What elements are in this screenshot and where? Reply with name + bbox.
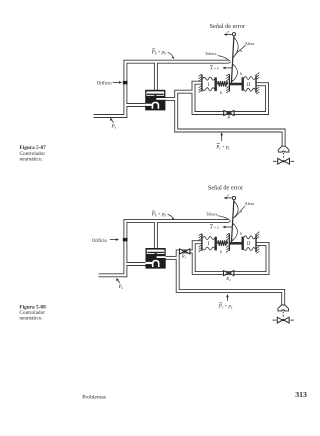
svg-text:Ps: Ps [118, 285, 124, 290]
svg-text:R1: R1 [181, 253, 187, 259]
svg-text:Señal de error: Señal de error [208, 185, 244, 192]
svg-text:X + x: X + x [209, 65, 219, 70]
svg-text:neumático.: neumático. [19, 316, 42, 322]
svg-text:Tobera: Tobera [205, 51, 217, 56]
svg-text:e: e [227, 193, 229, 198]
svg-text:e: e [227, 29, 229, 34]
svg-text:Tobera: Tobera [206, 212, 218, 217]
svg-text:Pb + pb: Pb + pb [151, 213, 166, 218]
svg-text:Orificio: Orificio [92, 239, 107, 244]
svg-text:Problemas: Problemas [82, 395, 106, 401]
svg-text:R: R [226, 115, 230, 120]
svg-text:Orificio: Orificio [97, 82, 112, 87]
svg-text:b: b [240, 71, 242, 76]
svg-text:Aleta: Aleta [245, 41, 254, 46]
svg-text:Ps: Ps [111, 125, 117, 130]
svg-text:a: a [240, 48, 242, 53]
svg-text:Pb + pb: Pb + pb [151, 51, 166, 56]
svg-text:a: a [240, 209, 242, 214]
svg-text:Pc + pc: Pc + pc [218, 305, 233, 310]
svg-text:Pc + pc: Pc + pc [215, 145, 230, 150]
svg-text:Aleta: Aleta [245, 201, 254, 206]
svg-text:R2: R2 [225, 276, 231, 282]
svg-text:b: b [240, 231, 242, 236]
svg-text:X + x: X + x [209, 225, 219, 230]
svg-text:neumático.: neumático. [20, 156, 43, 162]
svg-text:313: 313 [295, 390, 307, 399]
